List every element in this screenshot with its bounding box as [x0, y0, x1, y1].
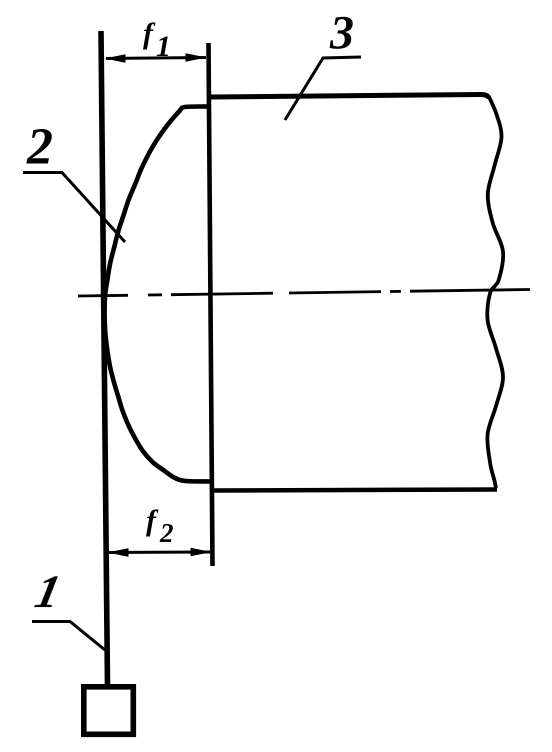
svg-text:2: 2 [26, 119, 53, 176]
svg-text:2: 2 [159, 518, 174, 548]
svg-text:1: 1 [156, 30, 171, 63]
svg-text:3: 3 [329, 7, 354, 60]
